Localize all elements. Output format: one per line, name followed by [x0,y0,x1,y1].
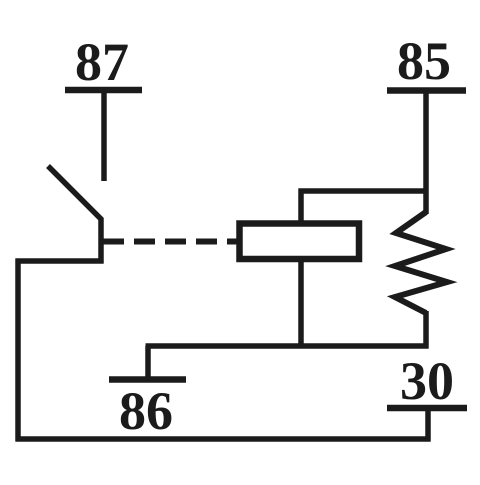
switch blade S1 [48,166,101,264]
svg-text:30: 30 [400,351,454,411]
terminal 86 bar [109,376,186,383]
wire top horizontal [299,188,429,194]
terminal 87 pin wire [101,90,107,181]
terminal 30 pin wire [425,408,431,442]
dashed actuation link [103,239,237,245]
terminal 86 pin wire [145,346,151,380]
wire bottom-left horizontal [16,258,104,264]
terminal 30 bar [387,405,467,412]
resistor bottom wire [423,311,429,349]
svg-text:87: 87 [75,32,129,92]
coil top pin wire [298,189,304,224]
relay coil K1 [240,224,360,260]
wire bottom horizontal [16,436,431,442]
terminal 85 bar [387,87,466,94]
terminal 87 bar [65,87,142,94]
svg-text:85: 85 [397,31,451,91]
resistor R1 [395,212,447,313]
terminal 85 pin wire [423,91,429,215]
svg-text:86: 86 [119,381,173,441]
wire lower middle horizontal [146,343,429,349]
coil bottom pin wire [298,259,304,349]
wire left vertical [15,259,21,442]
